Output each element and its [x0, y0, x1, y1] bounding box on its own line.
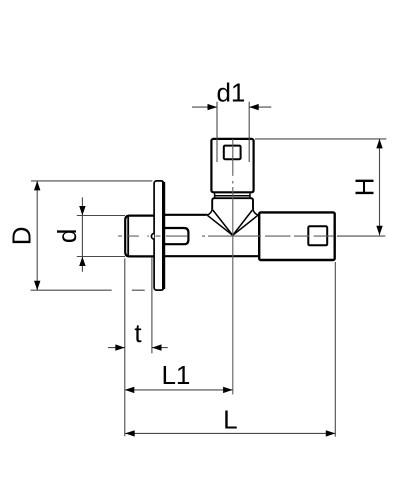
svg-text:t: t [134, 318, 142, 348]
svg-text:L: L [223, 404, 237, 434]
bonnet inner square [224, 146, 241, 160]
body top line [163, 214, 207, 217]
t arrow right (points left) [152, 344, 162, 350]
neck groove mid line [215, 195, 250, 197]
pipe end chamfer line [127, 217, 129, 256]
d1 arrow right [249, 104, 259, 110]
D arrow down [34, 281, 40, 291]
t right extension line [151, 258, 153, 354]
d extension lines [77, 216, 125, 257]
horizontal centerline [118, 235, 334, 237]
H arrow up [376, 139, 382, 149]
L1 arrow right [223, 387, 233, 393]
L right extension line [334, 262, 336, 437]
t dimension line [108, 347, 168, 349]
outlet stub on flange [164, 228, 188, 244]
flange right thick edge [162, 182, 165, 289]
vertical centerline [232, 139, 234, 235]
cone fan left outer [207, 215, 233, 235]
d1 extension lines [217, 102, 249, 162]
t/L1/L shared left extension line [124, 259, 126, 437]
right body inner square [308, 226, 327, 245]
D extension lines [31, 181, 153, 290]
inlet pipe outline [125, 216, 154, 257]
collar band [212, 198, 253, 209]
cone left fillet [207, 209, 212, 216]
L1 arrow left [125, 387, 135, 393]
svg-text:L1: L1 [161, 360, 190, 390]
flange weep bump [151, 234, 154, 240]
H arrow down [376, 226, 382, 236]
neck groove verticals [215, 193, 250, 197]
d dimension line [81, 197, 83, 271]
bonnet body [211, 139, 253, 192]
L arrow left [125, 430, 135, 436]
svg-text:D: D [7, 227, 37, 246]
D dimension line [36, 181, 38, 290]
flange [154, 181, 164, 290]
d arrow bottom (points up) [79, 257, 85, 267]
cone fan left inner [213, 210, 233, 235]
svg-text:d: d [52, 229, 82, 243]
cone right fillet [253, 209, 258, 216]
svg-text:H: H [349, 177, 379, 196]
cone fan right inner [233, 210, 253, 235]
L1 dimension line [125, 389, 233, 391]
body bottom line [163, 255, 259, 257]
L arrow right [326, 430, 336, 436]
H bottom extension (solid) [337, 235, 385, 237]
d arrow top (points down) [79, 206, 85, 216]
d1 dimension line [192, 106, 271, 108]
D arrow up [34, 181, 40, 191]
H dimension line [379, 139, 381, 235]
L dimension line [125, 432, 335, 434]
cone fan right outer [233, 215, 258, 235]
vertical centerline lower (L1 extension) [232, 235, 234, 395]
H top extension line [255, 138, 386, 140]
t arrow left (points right) [115, 344, 125, 350]
right body [259, 212, 335, 260]
d1 arrow left [208, 104, 218, 110]
svg-text:d1: d1 [216, 78, 245, 108]
